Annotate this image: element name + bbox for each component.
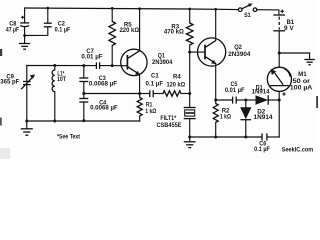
ceramic filter FILT1 CSB455E	[156, 94, 195, 138]
switch S1	[238, 3, 256, 18]
node: rail at C3 top	[82, 64, 85, 67]
node: rail at L1	[53, 64, 56, 67]
node: Q2 emitter / R2 junction	[214, 99, 217, 102]
node: Q1 base / R5 junction	[111, 64, 114, 67]
svg-text:0.1 µF: 0.1 µF	[55, 27, 71, 34]
ground under C8	[19, 36, 30, 50]
capacitor C9 365 pF (variable)	[0, 66, 35, 122]
node: D1 / meter junction	[278, 99, 281, 102]
svg-text:470 kΩ: 470 kΩ	[164, 29, 184, 36]
wire: C8 to C2 bottom	[25, 27, 48, 36]
svg-text:120 kΩ: 120 kΩ	[166, 81, 185, 88]
resistor R2 1 k	[213, 100, 231, 137]
svg-text:S1: S1	[244, 12, 251, 19]
svg-text:0.0068 µF: 0.0068 µF	[89, 81, 118, 88]
svg-text:220 kΩ: 220 kΩ	[120, 27, 140, 34]
svg-text:100 µA: 100 µA	[290, 85, 313, 92]
node: C3/C4 junction	[82, 92, 85, 95]
wire: top supply rail	[25, 8, 239, 10]
wire: emitter node to C5	[216, 99, 233, 101]
wire: battery node to chassis ground	[279, 53, 309, 59]
resistor R3 470 k	[164, 9, 193, 94]
svg-text:0.1 µF: 0.1 µF	[146, 80, 164, 87]
diode D1 1N914	[246, 84, 279, 105]
node: C5 / D2 / D1 junction	[244, 99, 247, 102]
node: bus at R2	[214, 136, 217, 139]
svg-text:SeekIC.com: SeekIC.com	[282, 146, 314, 153]
ground at bottom-left bus	[21, 121, 33, 135]
svg-text:0.01 µF: 0.01 µF	[225, 87, 245, 94]
svg-text:0.01 µF: 0.01 µF	[81, 53, 102, 60]
svg-text:2N3904: 2N3904	[152, 59, 173, 66]
node: R3 / Q2 base tap	[188, 51, 191, 54]
resistor R4 120 k	[153, 74, 190, 97]
svg-text:1 kΩ: 1 kΩ	[145, 108, 156, 115]
svg-text:10T: 10T	[57, 76, 66, 83]
node: bus at C4	[82, 119, 85, 122]
wire: bottom-left ground bus	[27, 120, 140, 122]
wire: Q1 emitter rail	[84, 93, 140, 95]
svg-text:2N3904: 2N3904	[228, 51, 251, 58]
svg-text:0.1 µF: 0.1 µF	[254, 146, 270, 153]
svg-text:47 µF: 47 µF	[6, 26, 19, 33]
svg-text:*See Text: *See Text	[57, 133, 80, 140]
ground at top right	[304, 60, 314, 65]
resistor R1 1 k	[137, 94, 156, 122]
node: rail at Q1 collector	[138, 7, 141, 10]
transistor Q2 2N3904	[190, 9, 251, 100]
wire: oscillator top rail (C9 to C7)	[27, 65, 96, 67]
node: C8/C2 bottom junction	[23, 34, 26, 37]
capacitor C7 0.01 uF	[81, 48, 122, 69]
node: rail at R3	[188, 8, 191, 11]
scan artifacts at edges	[0, 49, 2, 56]
battery B1 9V	[273, 10, 294, 54]
capacitor C5 0.01 uF	[225, 81, 246, 103]
svg-text:R4: R4	[173, 74, 181, 81]
capacitor C8 (electrolytic 47 uF)	[6, 8, 29, 36]
wire: bottom-right ground bus	[190, 136, 262, 138]
svg-text:1N914: 1N914	[252, 89, 271, 96]
inductor L1 10T	[52, 66, 66, 122]
svg-text:9 V: 9 V	[284, 25, 295, 32]
svg-text:1 kΩ: 1 kΩ	[220, 114, 231, 121]
capacitor C2 0.1 uF	[44, 8, 71, 33]
capacitor C4 0.0068 uF	[79, 94, 118, 122]
capacitor C6 0.1 uF	[254, 133, 279, 153]
node: rail at R5	[111, 7, 114, 10]
node: bus at D2	[244, 136, 247, 139]
node: bus at C9	[25, 120, 28, 123]
diode D2 1N914	[240, 100, 273, 137]
capacitor C3 0.0068 uF	[79, 66, 117, 94]
svg-text:1N914: 1N914	[254, 114, 274, 121]
node: rail at C2	[46, 7, 49, 10]
resistor R5 220 k	[109, 8, 139, 65]
ground under FILT1	[184, 137, 196, 148]
node: R4 / FILT1 junction	[188, 92, 191, 95]
node: Q1 emitter junction	[138, 92, 141, 95]
node: bus at L1	[53, 120, 56, 123]
node: FILT1 / ground-bus junction	[188, 136, 191, 139]
wire: S1 to battery	[257, 10, 279, 15]
wire: meter return down to C6	[278, 100, 280, 137]
svg-text:M1: M1	[298, 71, 307, 78]
svg-text:C1: C1	[151, 73, 159, 80]
transistor Q1 2N3904	[121, 9, 173, 94]
node: battery minus junction	[278, 52, 281, 55]
svg-text:CSB455E: CSB455E	[156, 122, 181, 129]
capacitor C1 0.1 uF	[140, 73, 164, 98]
svg-text:365 pF: 365 pF	[0, 78, 19, 85]
svg-text:0.0068 µF: 0.0068 µF	[90, 105, 118, 112]
meter M1 50 or 100 uA	[267, 53, 313, 100]
node: rail at Q2 collector	[214, 8, 217, 11]
